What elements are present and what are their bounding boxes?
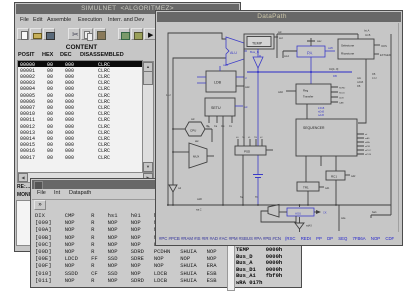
- lower-left labels: [17, 184, 31, 190]
- menu bar: [16, 14, 239, 28]
- register ASU: [287, 208, 314, 216]
- svg-text:13.2: 13.2: [372, 77, 377, 80]
- svg-text:h0: h0: [236, 137, 239, 139]
- wire: [173, 58, 226, 205]
- title bar: [32, 180, 300, 189]
- svg-text:CK: CK: [323, 211, 327, 215]
- wire PA out: [325, 50, 335, 52]
- svg-text:wRA: wRA: [365, 141, 370, 144]
- svg-text:Int.A: Int.A: [364, 29, 370, 33]
- svg-text:SEQUENCER: SEQUENCER: [303, 126, 325, 130]
- wire blue vertical Bus_B: [257, 49, 259, 205]
- register RegTransfer: [296, 84, 331, 104]
- svg-text:wd2: wd2: [351, 175, 356, 178]
- wire SEQUENCER right pins: [357, 134, 364, 154]
- svg-text:DB: DB: [333, 74, 337, 78]
- wire SETU pins: [209, 116, 232, 205]
- junction dots blue: [257, 71, 312, 73]
- wire mux to ASU: [279, 211, 287, 213]
- svg-text:RC1: RC1: [331, 175, 337, 179]
- svg-text:wDd: wDd: [278, 91, 283, 94]
- svg-text:DB: DB: [357, 85, 361, 88]
- svg-text:wd: wd: [279, 36, 283, 40]
- register PSD: [235, 146, 266, 155]
- svg-text:InDxB: InDxB: [318, 108, 325, 110]
- buffer ASU out: [316, 210, 321, 214]
- menu: [32, 189, 300, 200]
- microcode listing: [35, 212, 217, 284]
- svg-text:CPU: CPU: [190, 129, 196, 133]
- register RC1: [326, 171, 345, 180]
- svg-text:akc: akc: [195, 140, 200, 143]
- wire SETU out wd: [235, 105, 243, 107]
- wire wLA: [283, 51, 297, 58]
- svg-text:SDRD: SDRD: [339, 88, 346, 90]
- svg-text:ALU: ALU: [230, 51, 237, 55]
- svg-text:wdc: wdc: [245, 85, 250, 89]
- svg-text:MUX: MUX: [193, 155, 199, 159]
- wire CPU in: [173, 128, 185, 130]
- svg-text:h1: h1: [248, 137, 251, 139]
- wire PSD bottom pins: [242, 155, 244, 205]
- svg-text:Reg: Reg: [303, 89, 309, 93]
- wire MUX out: [207, 155, 214, 157]
- svg-text:wAxB: wAxB: [318, 114, 324, 117]
- h scrollbar: [17, 172, 154, 183]
- wire wDd: [286, 90, 296, 92]
- svg-text:wd1: wd1: [325, 187, 330, 190]
- memory table: [17, 60, 143, 173]
- svg-text:wd: wd: [178, 187, 182, 190]
- buffer down wd43: [295, 223, 304, 229]
- wire SEQUENCER top pin: [306, 104, 308, 119]
- wire TR1 bottom: [307, 191, 309, 205]
- wire PSD right: [266, 149, 273, 151]
- register TR1: [297, 182, 319, 191]
- svg-text:Ta: Ta: [207, 126, 210, 129]
- wire feedback: [358, 59, 366, 123]
- svg-text:wba: wba: [341, 217, 346, 220]
- wire ASU loop: [261, 211, 296, 222]
- svg-text:Ca: Ca: [214, 125, 218, 128]
- svg-text:EXTGED: EXTGED: [380, 53, 391, 57]
- svg-text:wPCC: wPCC: [365, 150, 372, 152]
- mux MUX2: [268, 205, 279, 218]
- wire PA bottom: [310, 57, 312, 84]
- svg-text:ASU: ASU: [295, 211, 301, 215]
- svg-text:wd: wd: [244, 105, 248, 109]
- svg-text:wd: wd: [278, 30, 282, 34]
- wire right vertical: [371, 34, 391, 218]
- svg-text:wa.C: wa.C: [196, 209, 202, 212]
- wire EXTGED: [374, 53, 379, 55]
- toolbar: [32, 200, 300, 211]
- junction dots: [167, 128, 337, 206]
- mux MUX1: [189, 143, 207, 168]
- CONTENT header: [15, 44, 148, 51]
- wire RegTransfer right pins: [331, 87, 338, 102]
- svg-text:Selezione: Selezione: [341, 44, 355, 48]
- svg-text:wbx: wbx: [357, 77, 362, 80]
- toolbar: [16, 27, 239, 42]
- comparator CPU: [185, 122, 205, 136]
- wire TEMP down: [243, 49, 245, 139]
- svg-text:wDxB: wDxB: [318, 112, 324, 114]
- v scrollbar: [142, 61, 154, 173]
- svg-text:SDLD: SDLD: [339, 93, 345, 95]
- block SEQUENCER: [296, 119, 357, 156]
- op-amp ALU: [226, 37, 247, 65]
- svg-text:DB: DB: [372, 73, 376, 76]
- wire PA top: [307, 38, 315, 46]
- register LDB: [206, 71, 236, 92]
- watch pane: [227, 212, 235, 291]
- register PA: [297, 46, 325, 57]
- svg-text:SETU: SETU: [211, 106, 221, 110]
- svg-text:wd5: wd5: [328, 46, 333, 50]
- wire hanging right: [338, 205, 340, 231]
- svg-text:Cx: Cx: [229, 125, 233, 128]
- svg-text:Int.B: Int.B: [365, 33, 371, 37]
- capacitor bus tap: [253, 175, 263, 178]
- wire PSD top pins: [238, 139, 262, 146]
- wire: [168, 33, 226, 205]
- buffer down: [169, 185, 177, 192]
- svg-text:Ricezione: Ricezione: [341, 52, 355, 56]
- wire DB bus (blue): [247, 71, 352, 73]
- svg-text:Bus_B: Bus_B: [250, 50, 259, 54]
- register SETU: [205, 98, 235, 116]
- svg-text:14.2: 14.2: [166, 94, 171, 97]
- svg-text:TA: TA: [242, 136, 245, 139]
- svg-text:Cw: Cw: [221, 125, 225, 128]
- svg-text:wsv: wsv: [317, 40, 322, 43]
- wire CPU out: [205, 129, 212, 142]
- wire stem: [299, 205, 301, 232]
- svg-text:PSD: PSD: [244, 150, 251, 154]
- svg-text:d: d: [245, 76, 247, 80]
- wire wd vertical: [276, 34, 278, 58]
- svg-text:wd: wd: [191, 117, 195, 121]
- svg-text:wAD: wAD: [365, 137, 370, 140]
- svg-text:wd43: wd43: [306, 225, 312, 228]
- wire LDB out d: [236, 76, 244, 78]
- status line: [157, 233, 401, 245]
- svg-text:ba1: ba1: [372, 210, 377, 214]
- svg-text:PA: PA: [307, 51, 312, 56]
- svg-text:TB: TB: [254, 137, 257, 139]
- svg-text:wDxB: wDxB: [357, 81, 364, 84]
- wire ICFS: [374, 44, 380, 46]
- svg-text:Transfer: Transfer: [303, 95, 313, 99]
- wire LDB out wdc: [236, 85, 244, 87]
- wire content frame right: [398, 23, 400, 232]
- svg-text:h2: h2: [260, 137, 263, 139]
- wire SEQUENCER bottom pins: [306, 156, 336, 182]
- column headers: [14, 52, 16, 60]
- wire LDB inputs: [197, 77, 206, 83]
- svg-text:Int[4..0]: Int[4..0]: [329, 67, 339, 71]
- buffer driver to bus: [253, 57, 263, 68]
- register TEMP: [244, 34, 278, 49]
- wire top horizontal: [277, 34, 358, 39]
- svg-text:wAB: wAB: [339, 102, 344, 105]
- svg-text:wPCB: wPCB: [365, 154, 372, 156]
- svg-text:wLA: wLA: [284, 54, 289, 58]
- wire bottom bus: [167, 204, 391, 206]
- svg-text:wd0: wd0: [197, 197, 202, 201]
- svg-text:LDB: LDB: [214, 81, 222, 85]
- svg-text:wI: wI: [365, 134, 368, 136]
- svg-text:ICFS: ICFS: [381, 44, 387, 48]
- svg-text:TEMP: TEMP: [252, 42, 263, 46]
- svg-text:wPM: wPM: [365, 146, 370, 148]
- block Selezione Ricezione: [338, 39, 374, 59]
- svg-text:TR1: TR1: [303, 186, 309, 190]
- wire RC1 bottom: [335, 180, 337, 205]
- svg-text:wDB: wDB: [339, 98, 344, 100]
- svg-text:wd9: wd9: [223, 63, 228, 67]
- wire MUX in: [173, 151, 189, 153]
- title bar: [16, 4, 239, 14]
